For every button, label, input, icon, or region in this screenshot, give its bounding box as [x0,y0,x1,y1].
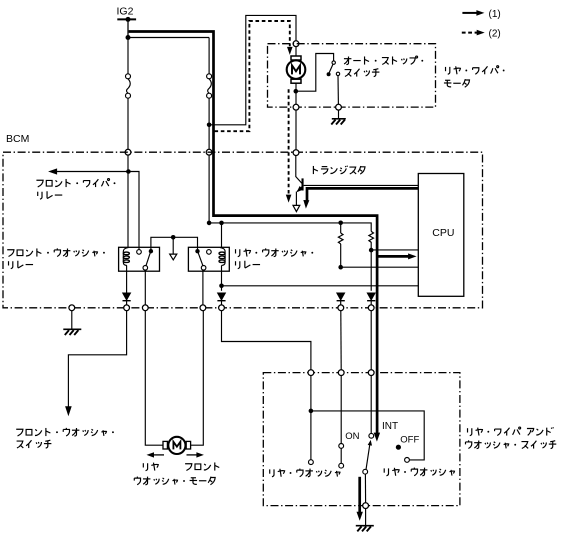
wire down to connector C2 [208,38,210,74]
wire relay commons link [151,237,198,251]
label rear washer relay line2 [236,261,261,269]
wire inside BCM [127,155,129,172]
box rear wiper motor (dash-dot) [268,44,436,107]
ground G2 [63,329,81,335]
wire IG2 stub [127,19,129,37]
wire rear washer to switch box [222,311,311,370]
node BCM entry pin B [206,149,212,155]
motor M2 right brush [186,441,190,449]
wire auto-stop to box edge [337,76,339,105]
wire legend arrow (2) [462,32,477,34]
motor M1 top brush [291,56,301,60]
node bias tap K2 contact [207,221,212,226]
wire washer motor right [191,311,204,446]
wire K2 coil bottom lead [221,265,223,290]
connector C1 upper half [126,74,131,79]
wire K2 contact bottom lead [202,270,204,305]
wire pin S2 down [340,375,342,443]
node BCM bottom pin P1 [69,305,75,311]
contact ON lower [339,463,344,468]
label rear washer left [270,469,340,477]
switch arm [366,444,370,469]
box CPU [418,174,464,297]
wire flow-2 dashed (motor down to transistor) [288,89,290,193]
node bias tap R1 [338,221,343,226]
wire K1 contact bottom lead [144,270,146,305]
ground G1 [331,119,346,125]
relay K2 output contact [201,266,206,271]
wire motor top lead [295,47,297,57]
wire to front relay contact [128,172,139,250]
wire flow-2 dotted path (thick line to rear motor) [215,21,290,131]
wire R2 node down to diode D4 [370,250,372,291]
transistor Q1 emitter lead [297,187,302,192]
svg-text:ON: ON [345,431,359,442]
label rear washer relay line1 [236,248,314,256]
svg-text:(1): (1) [489,9,501,20]
wire flow-1 transistor branch [307,188,418,200]
wire flow-1 branch to CPU [378,255,410,258]
contact rear washer left [309,460,314,465]
wire K1 coil bottom lead [126,265,128,293]
label rear switch line1 [468,427,554,436]
wire to node J2 [208,98,210,125]
wire pin P1 to ground [71,311,73,330]
relay K2 rear washer box [188,247,229,271]
label front washer switch line2 [17,440,52,448]
label rear wiper motor line2 [444,79,470,87]
wire IG2 to front relay (upper) [127,19,129,74]
resistor R1 [340,223,342,233]
node J2 branch to rear motor [207,123,212,128]
relay K2 coil [220,248,225,266]
node BCM entry pin C [293,150,299,156]
relay K1 common contact [149,249,153,253]
node BCM bottom pin P6 [338,305,344,311]
wire OFF loop [311,411,424,460]
wire flow-1 switch-to-ground [358,477,361,513]
arrow washer rear direction [154,454,165,456]
node rear motor box pin 1 [293,41,299,47]
relay K1 coil [123,248,128,266]
wire BCM P6 to pin S2 [340,311,342,370]
label washer motor [134,477,215,485]
node switch box pin S3 [368,370,374,376]
label front washer relay line1 [7,248,105,256]
motor M1 body [287,60,306,79]
wire K2 coil to CPU [222,285,419,287]
relay K2 contact feed circle [207,250,212,255]
svg-text:(2): (2) [489,29,501,40]
auto-stop switch pivot [327,72,331,76]
symbol output triangle (hollow) [170,254,177,260]
label auto-stop switch line1 [344,56,423,65]
wire to washer motor left [145,311,163,446]
label transistor [313,166,365,174]
auto-stop switch fixed contact 2 [336,72,339,75]
wire pin S1 down [310,375,312,459]
wire auto-stop switch feed [296,54,334,92]
node J4 OFF branch [309,409,314,414]
node J1 front wiper tap [126,169,131,174]
svg-text:BCM: BCM [6,133,29,145]
wire motor bottom lead [295,83,297,104]
svg-text:OFF: OFF [400,435,419,446]
connector C2 S-link [208,79,212,93]
relay K1 arm [146,252,150,265]
contact INT [369,433,374,438]
wire legend arrow (1) [462,12,477,14]
node bias tap K2 coil [219,221,224,226]
wire flow-1 arrow into INT contact [374,433,380,442]
connector C2 lower half [207,93,212,98]
resistor R2 [369,231,374,242]
node BCM bottom pin P4 [200,305,206,311]
node K2 coil CPU tap [219,284,224,289]
wire to output triangle [172,237,174,254]
wire to rear relay contact [208,155,210,223]
box BCM (dash-dot) [3,152,483,308]
symbol emitter triangle (hollow) [293,205,300,211]
wire motor return to BCM [295,110,297,150]
wire IG2 branch right [128,37,209,39]
wire BCM edge crossing [208,125,210,150]
motor M2 left brush [163,441,167,449]
label front washer switch line1 [16,428,114,436]
node switch box pin S1 [308,370,314,376]
box rear switch (dash-dot) [263,373,460,506]
label rear switch line2 [465,440,556,448]
relay K1 contact feed circle [137,250,142,255]
node BCM bottom pin P2 [124,305,130,311]
wire flow-1 main (IG2 right, down, across BCM, down to INT) [129,32,378,435]
diode D2 [218,293,226,300]
node BCM bottom pin P5 [219,305,225,311]
wire pin S3 down [370,375,372,433]
contact OFF position dot [396,445,401,450]
label washer front [185,462,219,470]
wire to ground G1 [338,110,340,119]
wire pivot to box bottom [364,474,366,503]
wire front washer switch [68,311,126,407]
relay K2 common contact [195,249,199,253]
label auto-stop switch line2 [345,69,380,77]
auto-stop switch arm [329,64,333,72]
motor M2 body [168,437,185,454]
node R2 bottom [369,248,374,253]
wire R2 to CPU [371,249,418,251]
node motor bottom junction [294,89,299,94]
label front washer relay line2 [9,261,34,269]
contact ON upper [339,444,344,449]
wire to ground G3 [365,508,367,525]
ground G3 [356,526,374,532]
node switch box pin S4 [363,503,369,509]
node IG2 terminal bar [117,18,136,20]
relay K2 arm [198,252,203,265]
node BCM entry pin A [125,149,131,155]
diode D1 [123,293,131,300]
wire bias rail [209,223,371,232]
wire to front relay coil [127,172,129,249]
transistor Q1 base line to CPU [304,184,419,186]
switch arm pivot [363,469,368,474]
wire front wiper relay arrow [56,171,128,173]
arrow washer front direction [187,454,198,456]
node IG2 junction upper [126,17,131,22]
label rear washer right [384,468,454,476]
wire K2 coil top lead [221,223,223,248]
motor M2 letter [173,442,180,450]
svg-text:CPU: CPU [432,227,454,239]
svg-text:INT: INT [382,421,398,432]
motor M1 letter [292,65,300,74]
wire BCM P7 to pin S3 [370,311,372,370]
auto-stop switch fixed contact 1 [332,61,335,64]
label washer rear [143,463,158,471]
contact OFF [405,458,410,463]
wire R1 to CPU [341,266,419,268]
node rear motor box pin 3 [336,104,342,110]
diode D3 [337,293,345,300]
connector C1 lower half [126,93,131,98]
connector C1 S-link [127,79,131,93]
wire motor return inside BCM [295,155,297,177]
relay K1 output contact [143,266,148,271]
node switch box pin S2 [338,370,344,376]
wire emitter down [295,192,297,206]
node J3 relay link tap [171,235,176,240]
node BCM bottom pin P3 [142,305,148,311]
connector C2 upper half [207,74,212,79]
label front wiper relay line1 [36,179,115,188]
transistor Q1 collector lead [296,177,302,184]
node R1 bottom [338,265,343,270]
node BCM bottom pin P7 [368,305,374,311]
node IG2 junction lower [126,35,131,40]
svg-text:IG2: IG2 [117,6,134,18]
transistor Q1 base bar [302,178,304,190]
diode D4 [367,293,375,300]
label rear wiper motor line1 [446,66,505,75]
label front wiper relay line2 [38,191,63,199]
motor M1 bottom brush [291,79,301,83]
wire rear motor feed (up and over) [209,15,296,124]
wire ON link [340,448,342,463]
node rear motor box pin 2 [293,104,299,110]
relay K1 front washer box [119,247,160,271]
wire to BCM edge [127,98,129,149]
